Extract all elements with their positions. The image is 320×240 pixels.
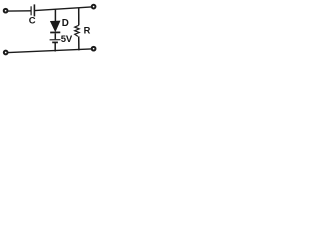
terminal bottom-left <box>4 51 8 55</box>
wire bottom rail <box>8 49 91 53</box>
wire: battery down to bottom rail <box>54 43 56 52</box>
terminal top-right <box>92 5 96 9</box>
svg-text:C: C <box>29 15 36 26</box>
wire top: capacitor to terminal top-right <box>35 7 92 11</box>
resistor R bottom lead <box>78 36 80 50</box>
terminal bottom-right <box>92 47 96 51</box>
capacitor C left plate <box>30 6 32 15</box>
svg-text:D: D <box>62 18 69 29</box>
svg-text:5V: 5V <box>61 34 73 45</box>
battery 5V short plate <box>52 41 58 43</box>
resistor R top lead <box>78 8 80 26</box>
svg-text:R: R <box>84 25 91 35</box>
diode D cathode bar <box>50 31 60 33</box>
wire: diode cathode bar down to battery <box>54 33 56 39</box>
wire: top rail down to diode D anode <box>54 9 56 21</box>
diode D triangle <box>51 21 60 31</box>
resistor R zigzag body <box>75 25 80 36</box>
battery 5V long plate <box>50 39 61 41</box>
terminal top-left <box>4 9 8 13</box>
wire top-left: terminal to capacitor <box>8 10 31 12</box>
capacitor C right plate <box>33 4 35 16</box>
